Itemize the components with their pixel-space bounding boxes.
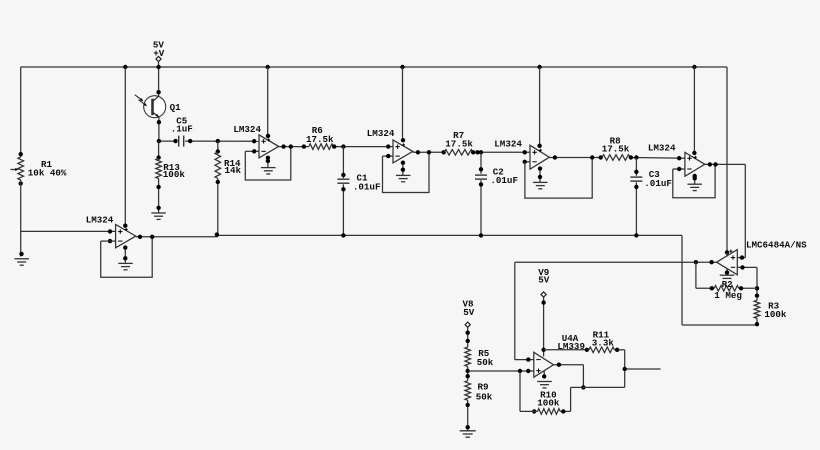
svg-text:100k: 100k [163,169,186,180]
wire R2 branch down [695,262,697,288]
power symbol 5V +V [156,56,161,61]
resistor R13 100k [158,141,160,158]
ground op4 [539,169,541,182]
wire Q1 collector from rail [158,67,160,96]
svg-text:.01uF: .01uF [490,175,518,186]
ground op5 [694,176,696,184]
wire R10 to + input [520,410,538,412]
wire R7 to op4 + input [473,151,530,153]
ground below R13 [156,206,160,210]
capacitor C3 .01uF [635,158,637,176]
ground comparator [543,371,545,377]
wire op1 - feedback [101,240,116,242]
svg-text:5V: 5V [463,307,475,318]
power symbol V8 5V [465,322,470,327]
resistor R3 100k [756,296,758,300]
capacitor C2 .01uF [480,152,482,174]
R1 wiper arrow [11,169,17,171]
wire bias rail bottom [682,324,757,326]
wire U6 output [515,261,717,263]
ground U6 [726,269,728,274]
wire op3 - feedback [383,155,394,157]
svg-text:.01uF: .01uF [644,178,672,189]
capacitor C5 .1uF [159,140,177,142]
wire U6 - input [737,266,757,268]
svg-text:LM324: LM324 [86,214,114,225]
wire op3 output [412,150,414,153]
svg-text:R2: R2 [722,279,733,290]
wire left rail lower [20,180,22,257]
svg-text:17.5k: 17.5k [445,138,473,149]
wire C5 to op2 + input [185,140,259,142]
resistor R9 50k [465,381,471,401]
ground below R9 [460,430,476,432]
wire R9 to ground [467,400,469,430]
wire op4 - feedback [525,161,530,163]
transistor Q1 phototransistor [144,96,166,118]
wire U6 - to R3 [756,267,758,296]
svg-text:50k: 50k [476,391,493,402]
wire V9 down to comparator power [543,297,545,356]
power symbol V9 5V [541,292,546,297]
svg-text:100k: 100k [537,398,560,409]
resistor R6 17.5k [309,144,334,150]
wire R2 to - node [739,287,757,289]
wire R6 to op3 + input [333,146,393,148]
svg-text:14k: 14k [225,165,242,176]
svg-text:17.5k: 17.5k [602,143,630,154]
svg-text:+V: +V [153,48,165,59]
resistor R11 3.3k [589,347,615,353]
svg-text:Q1: Q1 [170,102,182,113]
svg-text:LM324: LM324 [233,124,261,135]
svg-text:LM324: LM324 [648,143,676,154]
svg-text:3.3k: 3.3k [592,337,615,348]
svg-text:50k: 50k [477,357,494,368]
wire bias rail right drop [681,235,683,325]
wire R11 pull-up row [544,349,589,351]
ground op3 [402,163,404,175]
op-amp U6 LMC6484A/NS (points left) [717,250,738,275]
wire op1 + input from left rail [21,230,116,232]
wire op5 - feedback [673,168,685,170]
wire comparator output [554,364,584,366]
wire op1 output [136,236,218,238]
op-amp U3 LM324 (filter stage 2) [402,67,404,140]
wire op2 - feedback [245,150,259,152]
capacitor C1 .01uF [342,147,344,179]
resistor R1 (10k 40% pot) [19,152,23,156]
node +V supply rail (top) [21,66,727,68]
svg-text:LMC6484A/NS: LMC6484A/NS [746,239,807,250]
svg-text:.01uF: .01uF [353,181,381,192]
op-amp U4 LM324 (filter stage 3) [539,67,541,146]
svg-text:5V: 5V [538,274,550,285]
Q1 photo arrows [135,95,142,100]
svg-text:1 Meg: 1 Meg [714,290,742,301]
wire op5 output to U6 + input [744,164,746,257]
ground op2 [267,158,269,168]
ground op1 [124,248,126,263]
resistor R2 1 Meg [714,286,739,292]
resistor R14 14k [217,141,219,152]
svg-text:LM324: LM324 [494,138,522,149]
svg-text:.1uF: .1uF [171,124,193,135]
comparator U4A LM339 [534,352,554,377]
op-amp U1 LM324 (bias buffer) [124,67,126,226]
wire U6 + input [737,257,745,259]
wire op5 output [705,163,746,165]
wire op4 output [548,156,550,158]
op-amp U2 LM324 (filter stage 1) [267,67,269,136]
wire output stub [625,368,661,370]
resistor R8 17.5k [602,155,630,161]
op-amp U5 LM324 (filter stage 4) [693,67,695,153]
wire divider junction [467,367,469,381]
wire Q1 emitter down [158,117,160,141]
svg-text:17.5k: 17.5k [306,134,334,145]
wire hysteresis branch [571,386,584,388]
wire left rail upper [20,67,22,157]
resistor R7 17.5k [444,150,473,156]
svg-text:LM324: LM324 [367,128,395,139]
wire R11 down to output node [624,350,626,388]
svg-text:100k: 100k [764,309,787,320]
resistor R10 100k [538,409,561,415]
wire U6 output to comparator - input [514,262,516,359]
wire +V rail to U6 power [726,67,728,252]
resistor R5 50k [465,347,471,367]
wire op2 output [279,146,309,148]
ground below R1 [19,252,23,256]
wire R8 to op5 + input [630,157,685,160]
node bias rail (capacitor return) [217,234,682,236]
wire divider to comparator + input [468,370,534,372]
svg-text:10k 40%: 10k 40% [28,168,67,179]
wire V8 to R5 [467,327,469,347]
